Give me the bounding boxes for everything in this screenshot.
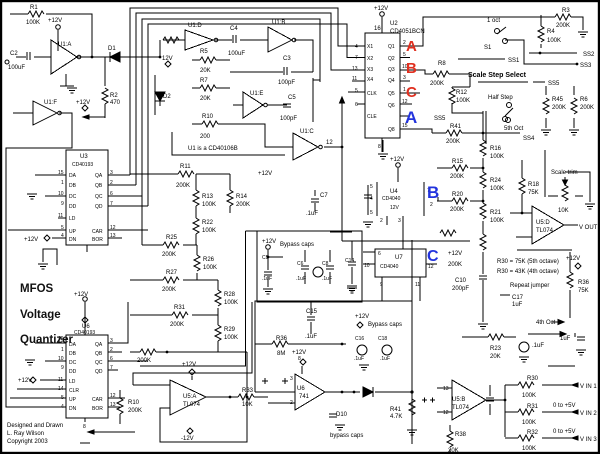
svg-text:R27: R27 <box>166 270 178 276</box>
svg-text:QD: QD <box>95 204 103 210</box>
svg-text:V IN 1: V IN 1 <box>580 384 597 390</box>
svg-text:20K: 20K <box>200 96 211 102</box>
svg-text:R25: R25 <box>166 235 178 241</box>
svg-text:+12V: +12V <box>390 157 404 163</box>
svg-text:L. Ray Wilson: L. Ray Wilson <box>7 431 44 437</box>
svg-text:X2: X2 <box>367 56 373 62</box>
svg-text:R4: R4 <box>547 29 555 35</box>
svg-text:D1: D1 <box>108 46 116 52</box>
svg-text:DA: DA <box>69 173 77 179</box>
svg-text:.1uF: .1uF <box>262 276 272 282</box>
svg-text:.1uF: .1uF <box>306 211 318 217</box>
svg-text:9: 9 <box>61 201 64 207</box>
svg-text:TL074: TL074 <box>536 228 554 234</box>
svg-text:1: 1 <box>61 180 64 186</box>
svg-text:+12V: +12V <box>48 18 62 24</box>
svg-text:.1uF: .1uF <box>354 356 364 362</box>
svg-text:4: 4 <box>61 233 64 239</box>
svg-text:Bypass caps: Bypass caps <box>280 242 314 248</box>
svg-text:2: 2 <box>110 180 113 186</box>
svg-text:R8: R8 <box>438 61 446 67</box>
svg-text:5: 5 <box>61 225 64 231</box>
svg-text:+12V: +12V <box>448 251 462 257</box>
svg-text:R15: R15 <box>452 159 464 165</box>
svg-text:TL074: TL074 <box>183 402 201 408</box>
svg-text:10K: 10K <box>558 208 569 214</box>
svg-text:3: 3 <box>110 338 113 344</box>
svg-text:100K: 100K <box>26 20 40 26</box>
svg-text:R10: R10 <box>202 114 214 120</box>
svg-text:10: 10 <box>364 263 370 269</box>
svg-text:R23: R23 <box>490 346 502 352</box>
svg-text:SS5: SS5 <box>548 81 560 87</box>
svg-text:C6: C6 <box>297 261 304 267</box>
svg-text:5: 5 <box>355 88 358 94</box>
svg-text:R30: R30 <box>527 376 539 382</box>
svg-text:200K: 200K <box>236 202 250 208</box>
svg-text:5th Oct: 5th Oct <box>504 126 524 132</box>
svg-text:U5:B: U5:B <box>452 397 465 403</box>
svg-text:100uF: 100uF <box>228 51 245 57</box>
svg-text:Voltage: Voltage <box>20 309 61 321</box>
svg-text:C7: C7 <box>320 193 328 199</box>
svg-text:R38: R38 <box>455 432 467 438</box>
svg-text:V IN 3: V IN 3 <box>580 437 597 443</box>
svg-text:R31: R31 <box>174 305 186 311</box>
svg-text:V OUT: V OUT <box>579 225 598 231</box>
svg-text:12V: 12V <box>390 205 400 211</box>
svg-text:20K: 20K <box>200 68 211 74</box>
svg-text:TL074: TL074 <box>452 405 470 411</box>
svg-text:CD4051BCN: CD4051BCN <box>390 29 425 35</box>
svg-text:0 to +5V: 0 to +5V <box>553 403 576 409</box>
svg-text:C14: C14 <box>345 258 354 264</box>
svg-text:R32: R32 <box>527 430 539 436</box>
svg-text:+12V: +12V <box>355 314 369 320</box>
svg-text:100K: 100K <box>490 218 504 224</box>
svg-text:LD: LD <box>69 379 76 385</box>
svg-text:100K: 100K <box>522 446 536 452</box>
svg-text:8: 8 <box>378 144 381 150</box>
svg-text:6: 6 <box>110 191 113 197</box>
svg-text:C17: C17 <box>512 295 524 301</box>
svg-text:S1: S1 <box>484 45 492 51</box>
svg-text:100K: 100K <box>456 98 470 104</box>
svg-text:3: 3 <box>290 376 293 382</box>
svg-text:SS3: SS3 <box>580 63 592 69</box>
svg-text:U1:B: U1:B <box>272 20 285 26</box>
svg-text:Repeat jumper: Repeat jumper <box>510 283 549 289</box>
svg-text:4: 4 <box>61 404 64 410</box>
svg-text:200K: 200K <box>556 23 570 29</box>
svg-text:QB: QB <box>95 351 103 357</box>
svg-text:SS4: SS4 <box>523 136 535 142</box>
svg-text:C10: C10 <box>455 278 467 284</box>
svg-text:V IN 2: V IN 2 <box>580 411 597 417</box>
svg-text:DD: DD <box>69 204 77 210</box>
svg-text:4th Oct: 4th Oct <box>536 320 556 326</box>
svg-text:U1:A: U1:A <box>58 42 71 48</box>
svg-text:.1uF: .1uF <box>305 334 317 340</box>
svg-text:R31: R31 <box>527 404 539 410</box>
svg-text:2: 2 <box>430 202 433 208</box>
svg-text:200K: 200K <box>580 105 594 111</box>
svg-text:Q8: Q8 <box>388 127 395 133</box>
svg-text:8M: 8M <box>277 351 285 357</box>
svg-text:R16: R16 <box>490 146 502 152</box>
svg-text:DD: DD <box>69 369 77 375</box>
svg-text:X3: X3 <box>367 67 373 73</box>
svg-text:QB: QB <box>95 183 103 189</box>
svg-text:Q6: Q6 <box>388 103 395 109</box>
svg-text:R30 = 43K (4th octave): R30 = 43K (4th octave) <box>497 269 559 275</box>
svg-text:U2: U2 <box>390 21 398 27</box>
svg-text:Scale Step Select: Scale Step Select <box>468 72 527 79</box>
svg-text:DN: DN <box>69 237 77 243</box>
svg-text:8: 8 <box>83 424 86 430</box>
svg-text:+12V: +12V <box>182 362 196 368</box>
svg-text:200K: 200K <box>162 252 176 258</box>
svg-text:200K: 200K <box>448 262 462 268</box>
svg-text:C5: C5 <box>288 95 296 101</box>
svg-text:200K: 200K <box>162 287 176 293</box>
svg-text:200K: 200K <box>446 139 460 145</box>
svg-text:200K: 200K <box>450 207 464 213</box>
svg-text:R36: R36 <box>276 336 288 342</box>
svg-text:U7: U7 <box>395 255 403 261</box>
svg-text:QA: QA <box>95 173 103 179</box>
svg-text:20K: 20K <box>490 354 501 360</box>
svg-text:100K: 100K <box>224 300 238 306</box>
svg-text:D2: D2 <box>163 94 171 100</box>
svg-text:QC: QC <box>95 360 103 366</box>
svg-text:741: 741 <box>299 394 310 400</box>
svg-text:100K: 100K <box>522 420 536 426</box>
svg-text:C8: C8 <box>322 261 329 267</box>
svg-text:4: 4 <box>370 196 373 202</box>
svg-text:5: 5 <box>61 395 64 401</box>
svg-text:U1:C: U1:C <box>300 129 314 135</box>
svg-text:Half Step: Half Step <box>488 95 513 101</box>
svg-text:CLK: CLK <box>367 91 377 97</box>
svg-text:R18: R18 <box>528 182 540 188</box>
svg-text:75K: 75K <box>578 288 589 294</box>
svg-text:SS2: SS2 <box>583 52 595 58</box>
svg-text:A: A <box>406 38 417 55</box>
svg-text:1uF: 1uF <box>560 336 571 342</box>
svg-text:16: 16 <box>374 26 381 32</box>
svg-text:Q2: Q2 <box>388 56 395 62</box>
svg-text:SS1: SS1 <box>508 58 520 64</box>
svg-text:DB: DB <box>69 183 77 189</box>
svg-text:200K: 200K <box>552 105 566 111</box>
svg-text:UP: UP <box>69 397 77 403</box>
svg-text:2: 2 <box>290 400 293 406</box>
svg-text:5: 5 <box>370 184 373 190</box>
svg-text:10K: 10K <box>242 402 253 408</box>
svg-text:C4: C4 <box>230 26 238 32</box>
svg-text:1uF: 1uF <box>512 302 523 308</box>
svg-text:11: 11 <box>58 213 63 219</box>
svg-text:R7: R7 <box>200 78 208 84</box>
svg-text:B: B <box>406 60 417 77</box>
svg-text:12: 12 <box>443 410 449 416</box>
svg-text:100pF: 100pF <box>280 116 297 122</box>
svg-text:CD4040: CD4040 <box>380 264 399 270</box>
svg-text:100pF: 100pF <box>278 80 295 86</box>
svg-text:Designed and Drawn: Designed and Drawn <box>7 423 63 429</box>
svg-text:5: 5 <box>370 210 373 216</box>
svg-text:13: 13 <box>352 66 358 72</box>
svg-text:X1: X1 <box>367 44 373 50</box>
svg-text:C3: C3 <box>283 56 291 62</box>
svg-text:100K: 100K <box>522 393 536 399</box>
svg-text:C2: C2 <box>10 51 18 57</box>
svg-text:R24: R24 <box>490 178 502 184</box>
svg-text:13: 13 <box>110 233 116 239</box>
svg-text:6: 6 <box>355 102 358 108</box>
svg-text:U6: U6 <box>297 386 305 392</box>
svg-text:CD4040: CD4040 <box>382 196 401 202</box>
svg-text:X4: X4 <box>367 77 373 83</box>
svg-text:U5:D: U5:D <box>536 220 550 226</box>
svg-text:+12V: +12V <box>18 378 32 384</box>
svg-text:A: A <box>405 108 417 127</box>
svg-text:100K: 100K <box>224 335 238 341</box>
svg-text:15: 15 <box>58 170 64 176</box>
svg-text:DC: DC <box>69 194 77 200</box>
svg-text:Scale trim: Scale trim <box>551 170 578 176</box>
svg-text:100K: 100K <box>547 38 561 44</box>
svg-text:U1:D: U1:D <box>188 23 202 29</box>
svg-text:20K: 20K <box>448 448 459 454</box>
svg-text:.1uF: .1uF <box>296 276 306 282</box>
svg-text:CAR: CAR <box>92 397 103 403</box>
svg-text:100K: 100K <box>202 228 216 234</box>
svg-text:12V: 12V <box>162 56 173 62</box>
svg-text:4.7K: 4.7K <box>390 414 402 420</box>
svg-text:+12V: +12V <box>258 171 272 177</box>
svg-text:MFOS: MFOS <box>20 283 54 295</box>
svg-text:R13: R13 <box>202 194 214 200</box>
svg-text:+12V: +12V <box>24 237 38 243</box>
svg-text:R12: R12 <box>456 90 468 96</box>
svg-text:DN: DN <box>69 406 77 412</box>
svg-text:CD40193: CD40193 <box>72 162 93 168</box>
svg-text:+12V: +12V <box>74 292 88 298</box>
svg-text:3: 3 <box>398 218 401 224</box>
svg-text:.1uF: .1uF <box>380 356 390 362</box>
svg-text:R11: R11 <box>180 164 191 170</box>
svg-text:+12V: +12V <box>566 256 580 262</box>
svg-text:U3: U3 <box>80 154 88 160</box>
svg-text:10: 10 <box>58 191 64 197</box>
svg-text:+12V: +12V <box>262 239 276 245</box>
svg-text:C: C <box>427 248 439 265</box>
svg-text:2: 2 <box>110 347 113 353</box>
svg-text:C5: C5 <box>262 255 269 261</box>
svg-text:R36: R36 <box>578 280 590 286</box>
svg-text:11: 11 <box>352 76 357 82</box>
svg-text:100K: 100K <box>490 154 504 160</box>
svg-text:7: 7 <box>110 201 113 207</box>
svg-text:R28: R28 <box>224 292 236 298</box>
svg-text:R1: R1 <box>30 5 38 11</box>
svg-text:Q3: Q3 <box>388 67 395 73</box>
svg-text:Q5: Q5 <box>388 91 395 97</box>
svg-text:100K: 100K <box>202 202 216 208</box>
svg-text:100K: 100K <box>490 186 504 192</box>
svg-text:10: 10 <box>58 356 64 362</box>
svg-text:R29: R29 <box>224 327 236 333</box>
svg-text:200K: 200K <box>170 322 184 328</box>
svg-text:B: B <box>427 183 439 202</box>
svg-text:R20: R20 <box>452 192 464 198</box>
svg-text:R22: R22 <box>202 220 214 226</box>
svg-text:BOR: BOR <box>92 237 103 243</box>
svg-text:DC: DC <box>69 360 77 366</box>
svg-text:R5: R5 <box>200 49 208 55</box>
svg-text:.1uF: .1uF <box>532 343 544 349</box>
svg-text:200K: 200K <box>450 174 464 180</box>
svg-text:U1 is a CD40106B: U1 is a CD40106B <box>188 146 238 152</box>
svg-text:R45: R45 <box>552 97 564 103</box>
svg-text:+12V: +12V <box>374 6 388 12</box>
svg-text:470: 470 <box>110 100 121 106</box>
svg-text:BOR: BOR <box>92 406 103 412</box>
svg-text:6: 6 <box>378 251 381 257</box>
svg-text:bypass caps: bypass caps <box>330 433 363 439</box>
svg-text:200K: 200K <box>430 81 444 87</box>
svg-text:13: 13 <box>443 386 449 392</box>
svg-text:13: 13 <box>110 402 116 408</box>
svg-text:Quantizer: Quantizer <box>20 334 74 346</box>
svg-text:R26: R26 <box>203 257 215 263</box>
svg-text:U5:A: U5:A <box>183 394 196 400</box>
svg-text:D10: D10 <box>336 412 348 418</box>
svg-text:CLR: CLR <box>69 388 79 394</box>
svg-text:9: 9 <box>380 282 383 288</box>
svg-text:U1:F: U1:F <box>44 100 57 106</box>
svg-text:LD: LD <box>69 216 76 222</box>
svg-text:C16: C16 <box>355 336 364 342</box>
svg-text:200pF: 200pF <box>452 286 469 292</box>
svg-text:7: 7 <box>355 55 358 61</box>
svg-text:CLE: CLE <box>367 114 377 120</box>
svg-text:C: C <box>406 84 417 101</box>
svg-text:QA: QA <box>95 342 103 348</box>
svg-text:CD40193: CD40193 <box>74 330 95 336</box>
svg-text:R10: R10 <box>128 400 140 406</box>
svg-text:11: 11 <box>58 377 63 383</box>
svg-text:R2: R2 <box>110 93 118 99</box>
svg-text:DB: DB <box>69 351 77 357</box>
svg-text:+12V: +12V <box>76 100 90 106</box>
svg-text:U4: U4 <box>390 189 398 195</box>
svg-text:1 oct: 1 oct <box>487 18 500 24</box>
svg-text:R41: R41 <box>390 407 402 413</box>
svg-text:SS5: SS5 <box>434 116 446 122</box>
svg-text:R3: R3 <box>562 8 570 14</box>
svg-text:UP: UP <box>69 229 77 235</box>
svg-text:R14: R14 <box>236 194 248 200</box>
svg-text:100K: 100K <box>203 265 217 271</box>
svg-text:11: 11 <box>415 282 420 288</box>
svg-text:7: 7 <box>110 365 113 371</box>
svg-text:QD: QD <box>95 369 103 375</box>
svg-text:R6: R6 <box>580 97 588 103</box>
svg-text:Q1: Q1 <box>388 44 395 50</box>
svg-text:QC: QC <box>95 194 103 200</box>
svg-text:R33: R33 <box>242 388 254 394</box>
svg-text:100uF: 100uF <box>8 65 25 71</box>
svg-text:200K: 200K <box>128 408 142 414</box>
svg-text:C18: C18 <box>378 336 387 342</box>
svg-text:2: 2 <box>380 218 383 224</box>
svg-text:R30 = 75K (5th octave): R30 = 75K (5th octave) <box>497 259 559 265</box>
svg-text:3: 3 <box>110 170 113 176</box>
svg-text:C15: C15 <box>306 309 318 315</box>
svg-text:200K: 200K <box>137 358 151 364</box>
svg-text:.1uF: .1uF <box>322 276 332 282</box>
svg-text:12: 12 <box>110 393 116 399</box>
svg-text:200: 200 <box>200 134 211 140</box>
svg-text:12: 12 <box>326 140 333 146</box>
svg-text:U1:E: U1:E <box>250 91 263 97</box>
svg-text:9: 9 <box>61 365 64 371</box>
svg-text:Q4: Q4 <box>388 78 395 84</box>
svg-text:8: 8 <box>298 356 301 362</box>
svg-text:200K: 200K <box>176 183 190 189</box>
svg-text:Bypass caps: Bypass caps <box>368 322 402 328</box>
svg-text:4: 4 <box>355 44 358 50</box>
svg-text:-12V: -12V <box>181 436 194 442</box>
svg-text:14: 14 <box>58 386 64 392</box>
svg-text:12: 12 <box>110 225 116 231</box>
svg-text:CAR: CAR <box>92 229 103 235</box>
svg-text:6: 6 <box>110 356 113 362</box>
svg-text:R41: R41 <box>450 124 462 130</box>
svg-text:Copyright 2003: Copyright 2003 <box>7 439 48 445</box>
svg-text:R21: R21 <box>490 210 502 216</box>
svg-text:75K: 75K <box>528 190 539 196</box>
svg-text:0 to +5V: 0 to +5V <box>553 429 576 435</box>
svg-text:1: 1 <box>61 347 64 353</box>
